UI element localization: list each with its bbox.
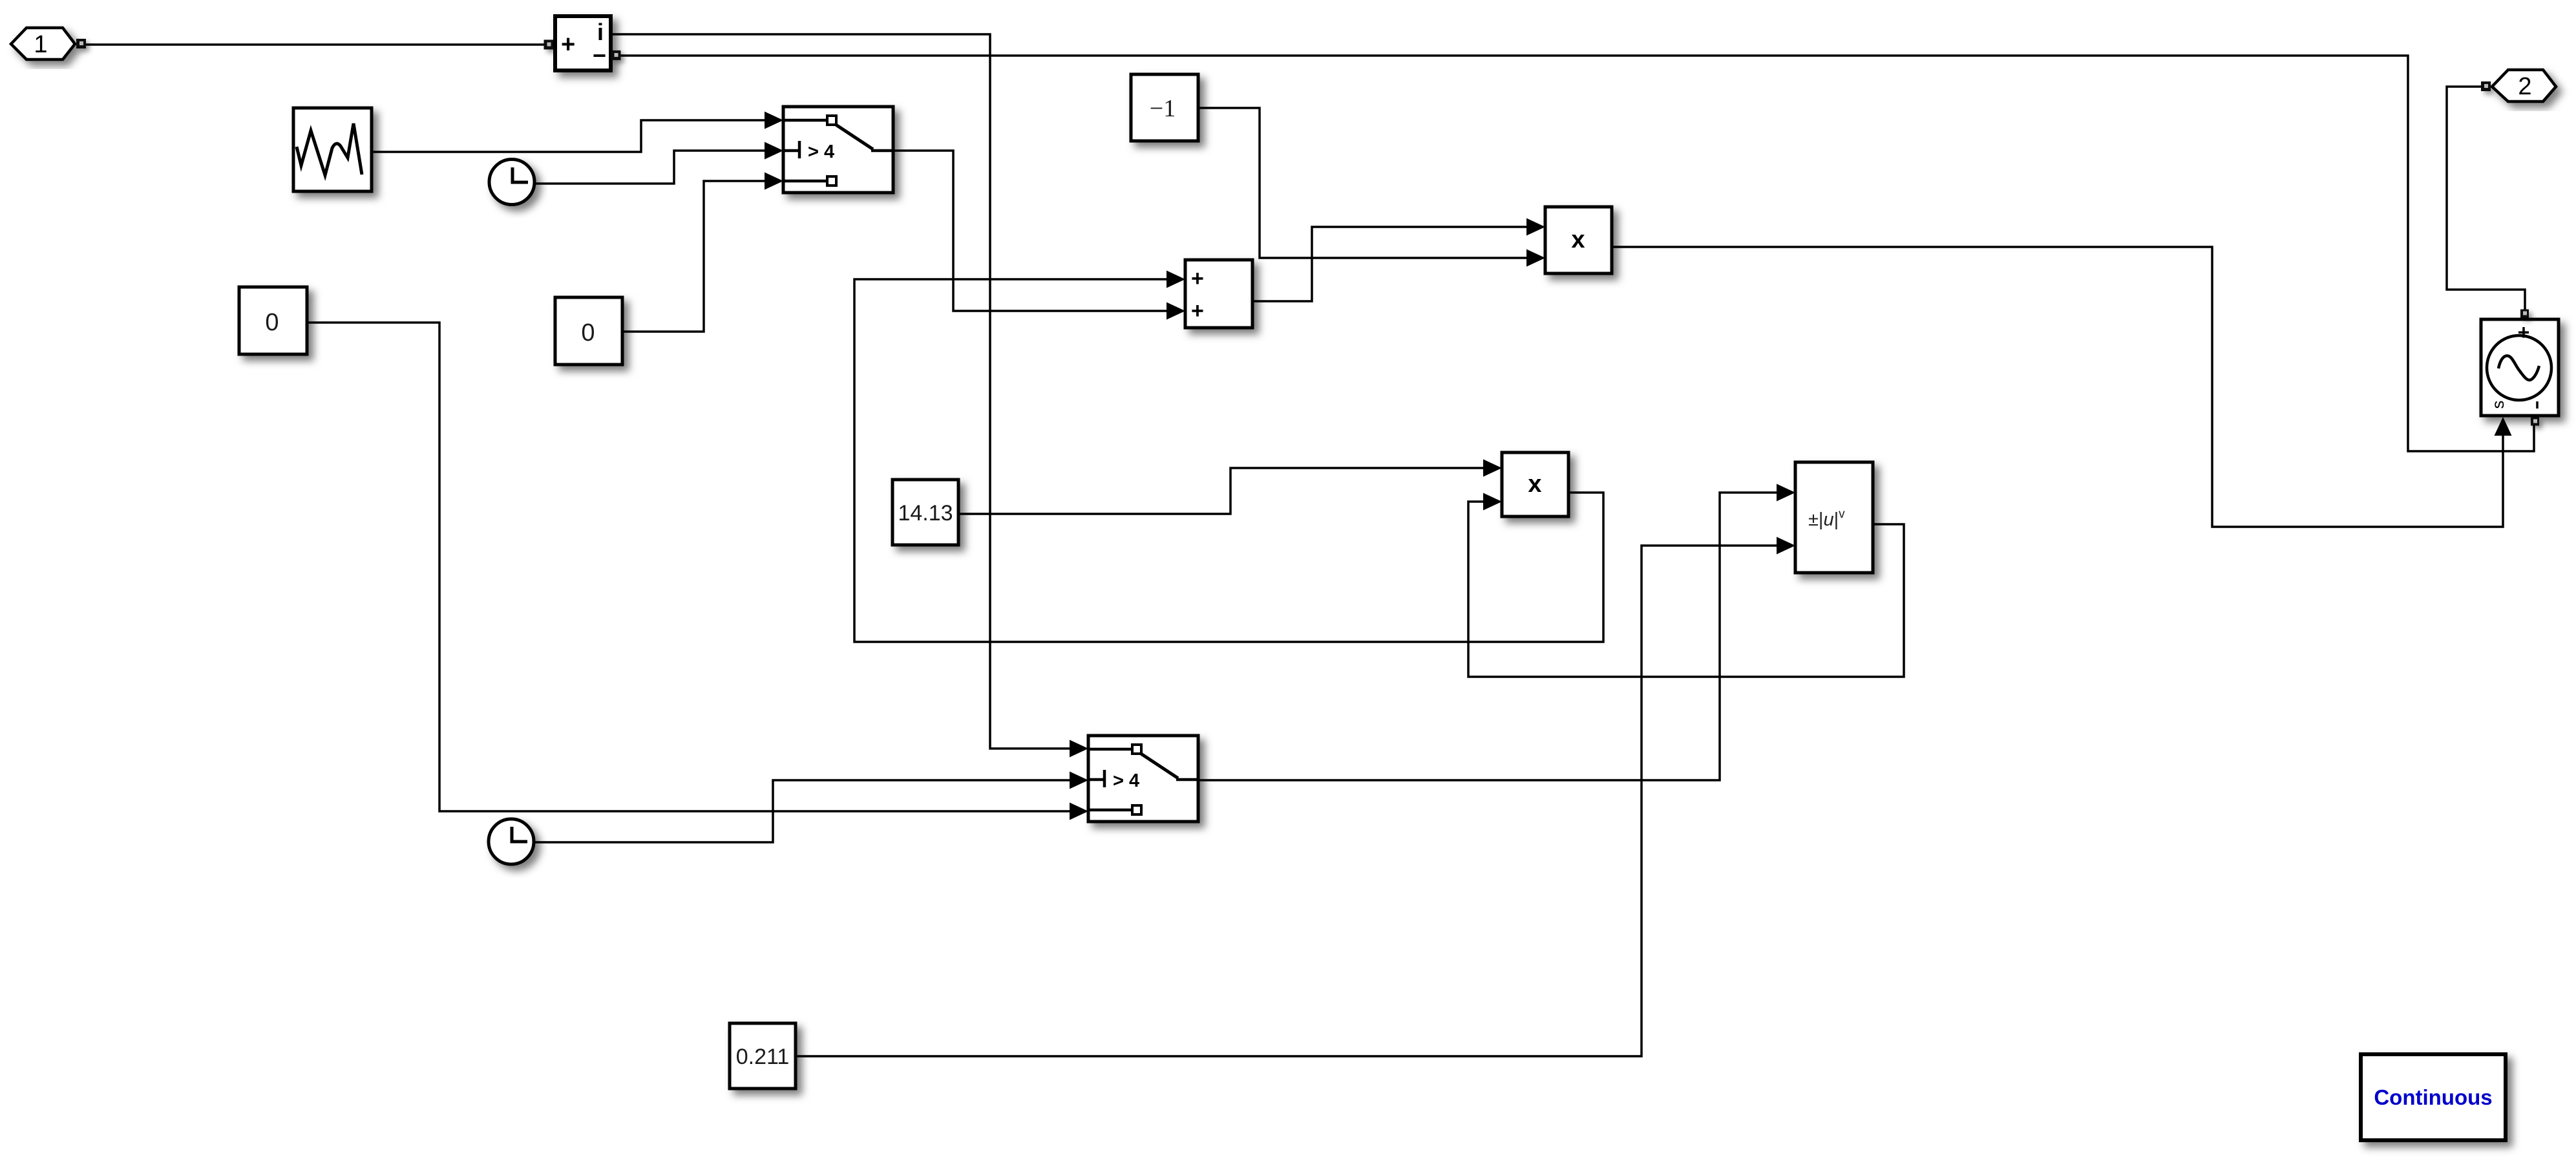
svg-text:> 4: > 4 [1113,771,1139,791]
svg-text:i: i [597,19,604,45]
source - label [2536,401,2539,409]
product block X1 [1545,207,1612,273]
svg-text:14.13: 14.13 [898,501,953,526]
constant 0 (b) [555,297,622,365]
wire W1: Inport 1 to Current Measurement + [86,43,548,46]
svg-text:x: x [1571,226,1585,253]
wire W5: Clock1 to Switch1 input 2 [534,151,769,184]
signal generator waveform icon [297,123,362,175]
clock 2 [489,819,534,864]
svg-text:1: 1 [34,31,47,58]
wire W16: Constant 0 (a) to Switch2 input 3 [307,323,1074,811]
wire W9: Sum output to Product1 input 1 [1252,227,1531,301]
wire W13: Switch2 output to Math Function input 1 [1198,493,1781,780]
math function block |u|^v [1795,462,1873,573]
svg-text:−: − [593,42,606,69]
current measurement block U1 [555,16,611,70]
svg-text:+: + [1191,299,1204,323]
port square: source - terminal [2531,418,2539,426]
wire W2: Current Measurement i output to Switch2 input 1 [611,34,1074,749]
wire W11: Product2 output to Sum input 1 [854,279,1603,642]
port square of inport 1 [76,39,86,48]
wire W14: Constant 0.211 to Math Function input 2 [796,546,1781,1056]
constant -1 [1131,74,1198,141]
wire W6: Constant 0 (b) to Switch1 input 3 [622,181,769,332]
svg-text:0.211: 0.211 [736,1045,790,1069]
svg-text:+: + [2518,321,2530,344]
svg-text:> 4: > 4 [808,142,834,162]
clock 1 [489,160,534,205]
port square: source + terminal [2520,310,2529,318]
svg-text:0: 0 [581,319,595,346]
switch block SW2 (threshold > 4) [1088,736,1198,822]
wire W18: AC Source + terminal to Outport 2 [2447,87,2525,311]
AC controlled voltage source block [2481,319,2559,416]
switch block SW1 (threshold > 4) [783,107,893,193]
wire W4: Signal Generator to Switch1 input 1 [372,120,769,152]
svg-text:−1: −1 [1150,95,1176,122]
powergui Continuous block [2361,1054,2506,1140]
svg-text:+: + [1191,266,1204,291]
svg-text:+: + [561,31,575,58]
inport 1 [11,28,75,59]
wire W3: Current Measurement - terminal to AC Source - terminal [619,56,2534,451]
source sine icon [2487,335,2551,400]
wire W10: Constant 14.13 to Product2 input 1 [958,468,1488,514]
port square: Current Measurement - terminal [611,50,621,60]
wire W12: Math Function output to Product2 input 2 [1468,502,1904,677]
svg-text:Continuous: Continuous [2374,1085,2492,1109]
wire W7: Switch1 output to Sum input 2 [893,151,1171,311]
constant 14.13 [892,480,958,545]
port square: Current Measurement + input [544,40,554,50]
svg-text:s: s [2488,401,2507,409]
svg-text:2: 2 [2518,73,2531,100]
wire W15: Product1 output to AC Source s input [1612,247,2503,527]
signal generator block [293,108,372,191]
wire W8: Constant -1 to Product1 input 2 [1198,108,1531,258]
port square of outport 2 [2481,81,2491,91]
constant 0.211 [730,1023,796,1089]
constant 0 (a) [239,287,307,354]
product block X2 [1502,452,1568,516]
wire W17: Clock2 to Switch2 input 2 [534,780,1074,842]
sum block (+ +) [1185,260,1252,328]
svg-text:x: x [1528,471,1541,498]
svg-text:0: 0 [265,309,279,336]
outport 2 [2492,70,2556,101]
